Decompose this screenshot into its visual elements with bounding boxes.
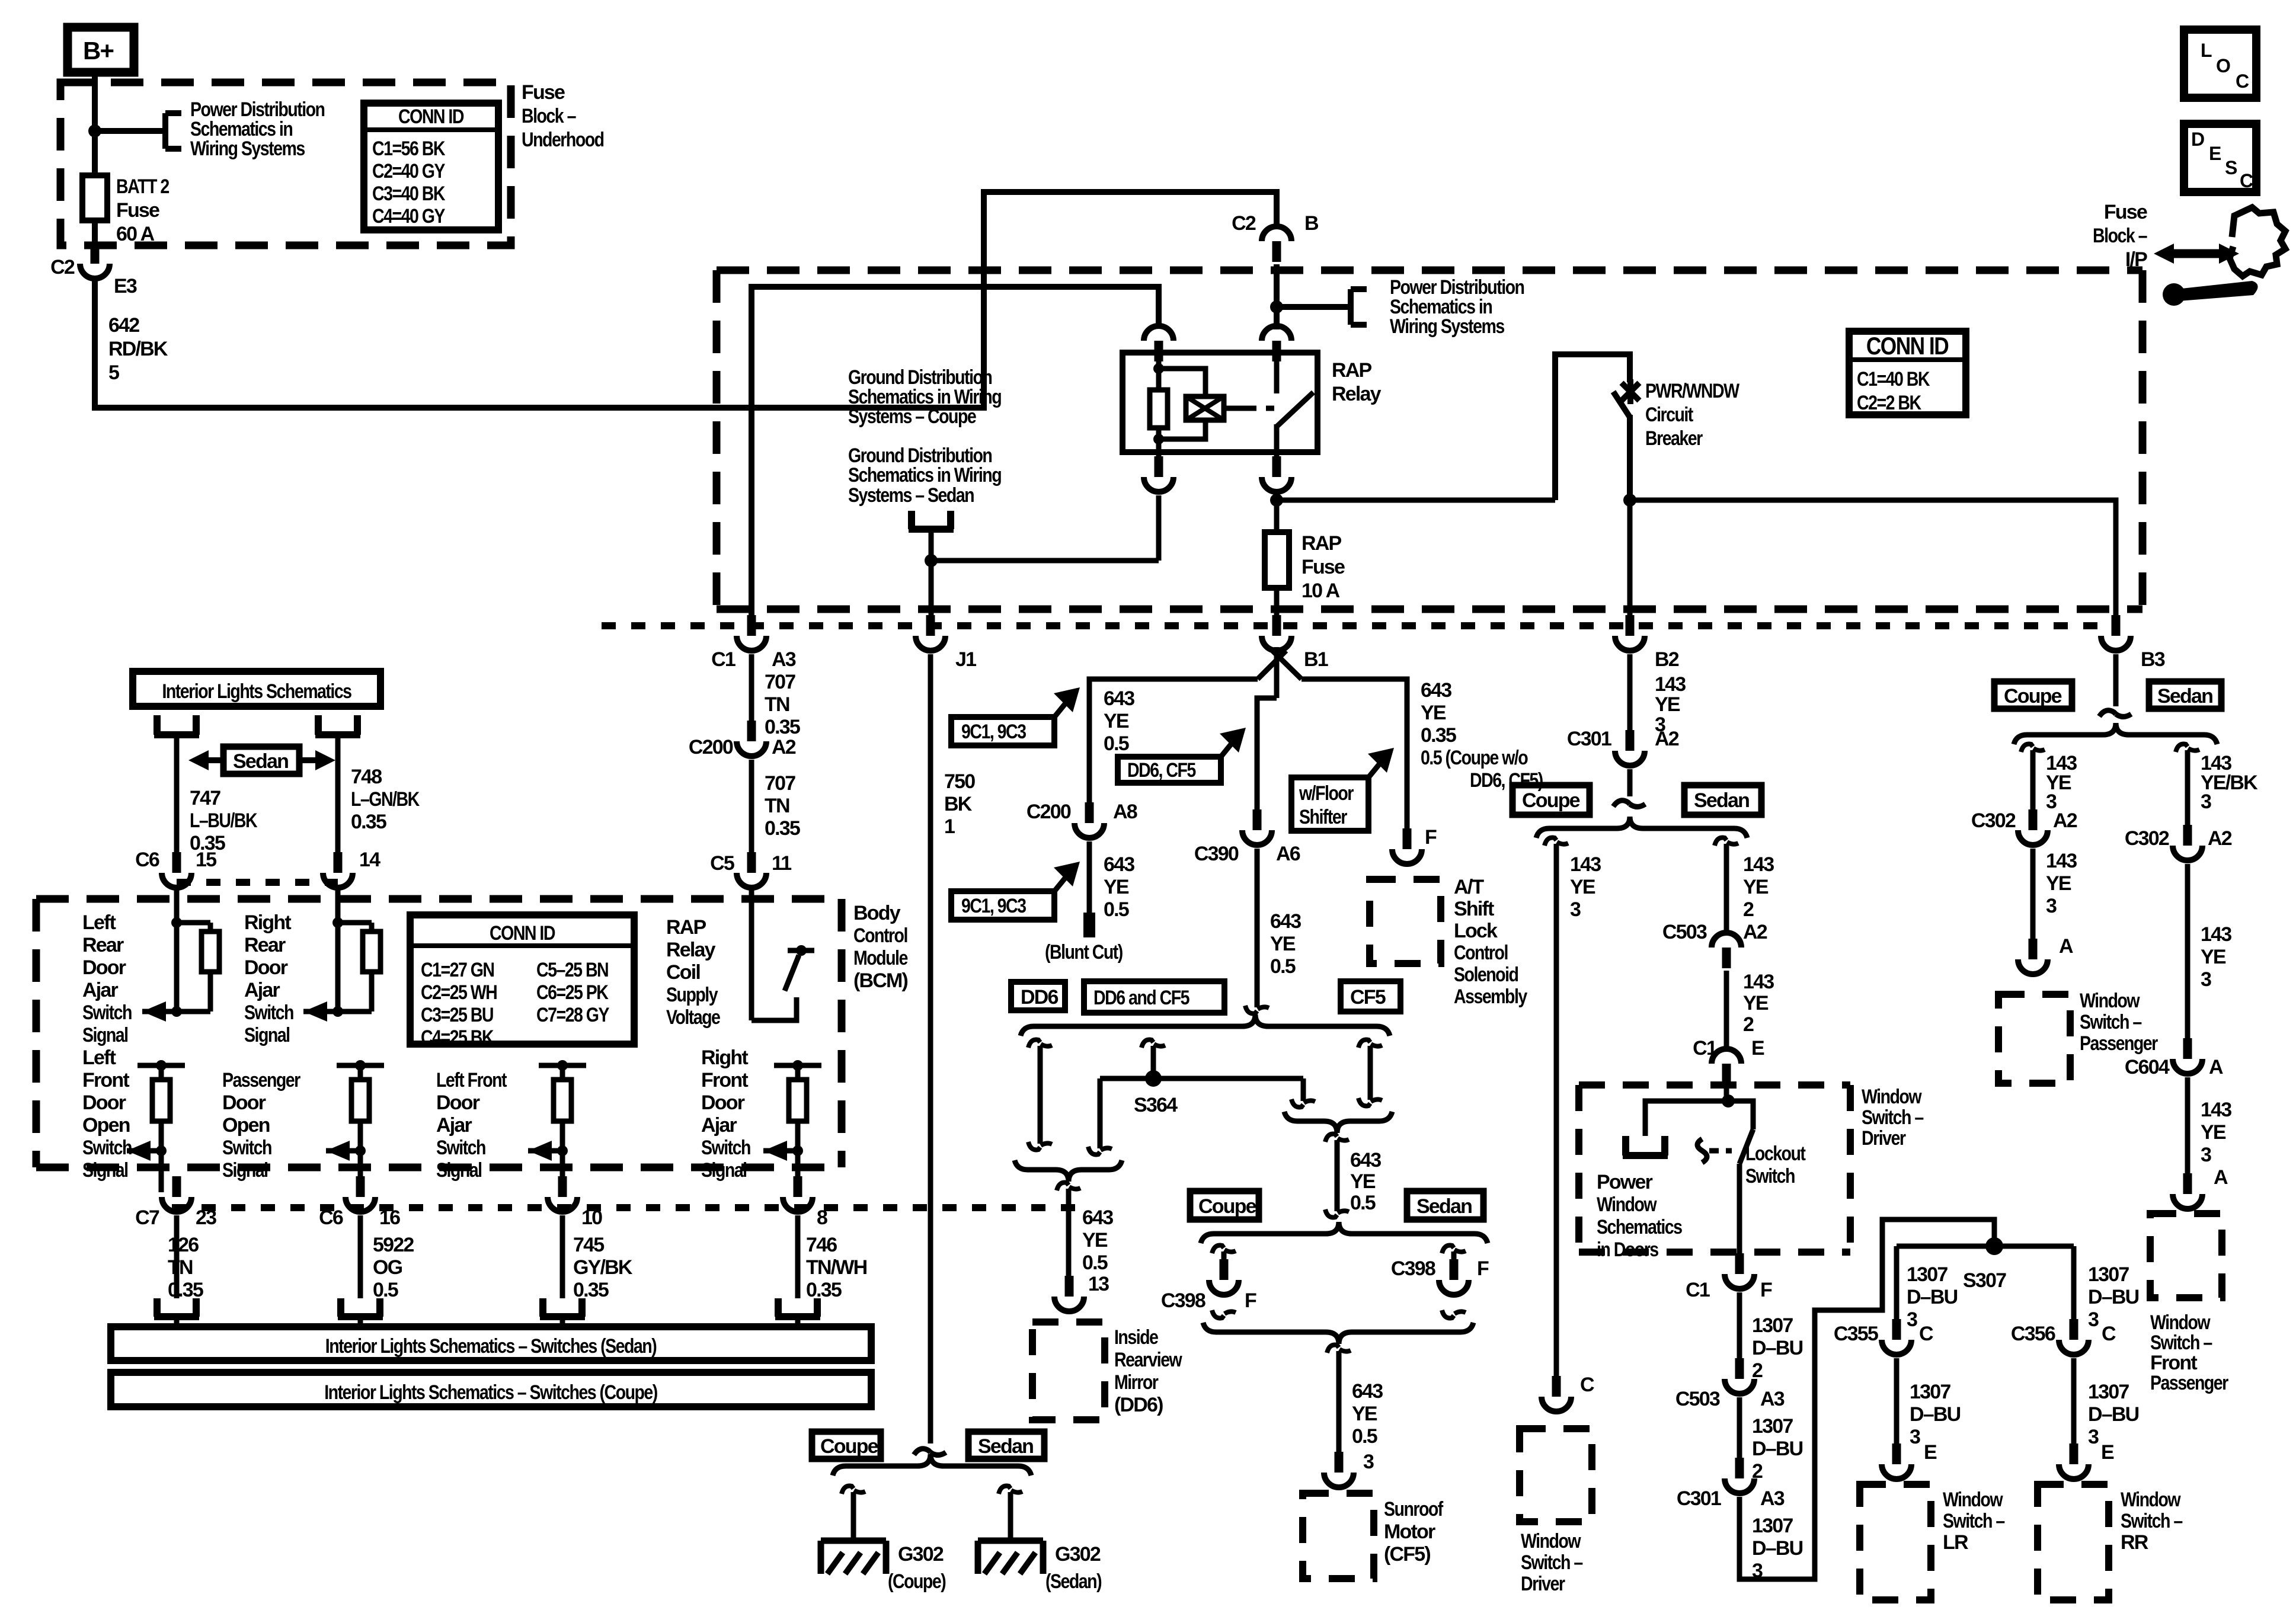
svg-text:Left Front: Left Front: [436, 1069, 507, 1092]
label B1: [1304, 648, 1328, 671]
svg-text:Control: Control: [1454, 942, 1508, 964]
svg-text:A8: A8: [1113, 801, 1137, 823]
label wire 643 YE 0.35 coupe note: [1421, 679, 1543, 792]
svg-text:Sedan: Sedan: [2157, 685, 2212, 708]
node relay coil top: [1153, 363, 1164, 374]
label wire 1307 D-BU 3 left of S307: [1907, 1263, 1958, 1331]
svg-text:Left: Left: [82, 1046, 116, 1069]
label S307: [1963, 1269, 2006, 1292]
svg-text:A3: A3: [1760, 1388, 1785, 1410]
label Left Front Door Open Switch Signal: [82, 1046, 132, 1182]
label C2: [50, 256, 75, 279]
label F at driver out: [1760, 1279, 1772, 1301]
wire sunroof motor: [1336, 1351, 1342, 1468]
label Ground Distribution Schematics in Wiring Systems Coupe: [848, 366, 1002, 428]
connector pin 14: [323, 852, 353, 888]
reference bracket power window doors: [1623, 1136, 1668, 1156]
connector passenger pin A: [2018, 939, 2048, 974]
label C302 coupe: [1971, 809, 2016, 832]
svg-text:C356: C356: [2011, 1323, 2055, 1345]
svg-text:Interior Lights Schematics – S: Interior Lights Schematics – Switches (S…: [325, 1335, 657, 1358]
svg-text:15: 15: [196, 849, 216, 871]
svg-text:Door: Door: [82, 1092, 126, 1114]
svg-text:Door: Door: [82, 956, 126, 979]
wire to power distribution ref 2: [1277, 304, 1351, 310]
label C356: [2011, 1323, 2055, 1345]
svg-text:TN: TN: [765, 693, 789, 716]
label B3: [2141, 648, 2165, 671]
right rear switch resistor branch: [332, 917, 380, 1012]
svg-text:0.35: 0.35: [351, 811, 386, 833]
label C301 at B2: [1567, 728, 1611, 750]
svg-text:Relay: Relay: [1332, 383, 1382, 405]
node right rear signal: [332, 1006, 343, 1017]
label C6 row2: [319, 1206, 343, 1229]
label wire 1307 D-BU 3 at LR: [1910, 1381, 1961, 1448]
label wire 143 YE 3 below C302 sedan: [2201, 923, 2231, 991]
label wire 1307 D-BU 3 below C301: [1752, 1515, 1803, 1582]
reference box DD6 CF5: [1118, 728, 1246, 783]
svg-text:C2=25 WH: C2=25 WH: [421, 981, 497, 1004]
wire S307 to C355: [1894, 1246, 1900, 1334]
svg-text:A2: A2: [772, 736, 796, 758]
svg-text:Voltage: Voltage: [666, 1006, 720, 1029]
reference box 9C1 9C3 upper: [951, 687, 1080, 745]
hook B2 sedan branch: [1715, 838, 1738, 846]
node lockout feed: [1722, 1094, 1735, 1108]
svg-text:Right: Right: [701, 1046, 748, 1069]
label A3 at C503: [1760, 1388, 1785, 1410]
label wire 643 YE 0.5 at A8: [1104, 687, 1134, 755]
interior lights switches sedan box: [111, 1327, 871, 1361]
right front door ajar switch: [763, 1060, 821, 1192]
hook B2 coupe branch: [1544, 838, 1568, 846]
label wire 707 TN 0.35 lower: [765, 772, 800, 840]
wire B1 right branch to F: [1302, 679, 1407, 844]
svg-text:Front: Front: [701, 1069, 748, 1092]
wire to inside rearview mirror: [1066, 1189, 1072, 1289]
brace split B2: [1536, 817, 1747, 838]
label 10: [581, 1206, 602, 1229]
label wire 746 TN/WH 0.35: [806, 1234, 867, 1301]
node junction below C2B: [1270, 300, 1283, 313]
svg-text:Window: Window: [1521, 1530, 1581, 1553]
label S364: [1134, 1094, 1178, 1116]
svg-text:YE: YE: [1570, 876, 1595, 898]
svg-text:Left: Left: [82, 911, 116, 934]
wire C301 to split: [1627, 769, 1633, 796]
svg-text:9C1, 9C3: 9C1, 9C3: [961, 721, 1027, 743]
svg-text:C: C: [1919, 1323, 1933, 1345]
svg-text:Sedan: Sedan: [1416, 1195, 1472, 1218]
label Left Front Door Ajar Switch Signal: [436, 1069, 507, 1182]
svg-text:10 A: 10 A: [1302, 580, 1340, 602]
window switch RR dashed box: [2038, 1484, 2109, 1600]
BCM RAP switch: [752, 885, 814, 1020]
svg-text:3: 3: [1910, 1426, 1920, 1448]
wire G302 coupe: [851, 1492, 856, 1541]
connector C window switch driver: [1542, 1376, 1571, 1411]
svg-text:C398: C398: [1161, 1289, 1205, 1312]
svg-text:1307: 1307: [1752, 1314, 1793, 1337]
svg-text:Front: Front: [82, 1069, 129, 1092]
svg-text:RD/BK: RD/BK: [108, 338, 168, 360]
option box Coupe B2: [1512, 785, 1590, 815]
hook C390 wire end: [1245, 1006, 1269, 1013]
svg-text:746: 746: [806, 1234, 837, 1256]
svg-text:Signal: Signal: [436, 1159, 482, 1182]
svg-text:Module: Module: [853, 947, 908, 969]
svg-text:C200: C200: [689, 736, 733, 758]
svg-text:143: 143: [1655, 673, 1686, 696]
brace split B3: [2014, 723, 2217, 744]
connector C390 pin A6: [1242, 809, 1272, 845]
label 14: [359, 849, 380, 871]
wire C604 to front passenger switch: [2185, 1077, 2191, 1189]
relay switch blade: [1277, 392, 1313, 427]
label C5: [710, 852, 734, 875]
label A3: [772, 648, 796, 671]
svg-text:C: C: [2240, 170, 2253, 191]
connector C301 pin A2: [1615, 730, 1645, 766]
label A3 at C301: [1760, 1487, 1785, 1510]
svg-text:Switch –: Switch –: [1943, 1510, 2005, 1532]
svg-text:643: 643: [1104, 687, 1134, 710]
svg-text:60 A: 60 A: [116, 223, 155, 245]
connector C5 pin 11: [737, 852, 766, 888]
fuse RAP 10A: [1265, 532, 1289, 588]
svg-text:YE: YE: [2046, 872, 2071, 895]
wire relay output to breaker leg: [1277, 498, 1555, 503]
svg-text:D: D: [2191, 129, 2204, 150]
label Left Rear Door Ajar Switch Signal: [82, 911, 132, 1046]
svg-text:S364: S364: [1134, 1094, 1178, 1116]
svg-text:143: 143: [1743, 853, 1774, 876]
left front door ajar switch: [528, 1060, 586, 1192]
label Window Switch Driver upper: [1862, 1086, 1924, 1150]
label wire 143 YE 3 below C302 coupe: [2046, 850, 2077, 917]
connector C503 pin A3: [1725, 1358, 1754, 1394]
svg-text:C6: C6: [135, 849, 159, 871]
svg-text:C503: C503: [1662, 921, 1707, 943]
label wire 143 YE 3 below C604: [2201, 1099, 2231, 1166]
wire RAP fuse feed: [1274, 500, 1280, 532]
label wire 643 YE 0.5 below A8: [1104, 853, 1134, 921]
svg-text:Interior Lights Schematics: Interior Lights Schematics: [162, 680, 351, 703]
svg-text:C1=40 BK: C1=40 BK: [1857, 368, 1930, 391]
svg-text:Sedan: Sedan: [233, 750, 288, 773]
svg-text:1307: 1307: [1907, 1263, 1948, 1286]
connector C1 pin A3: [737, 615, 766, 651]
label wire 143 YE 3 coupe branch: [1570, 853, 1601, 921]
svg-text:RAP: RAP: [1302, 532, 1342, 555]
hook coupe C398 top: [1212, 1246, 1236, 1253]
svg-text:E: E: [2209, 143, 2221, 164]
svg-text:C1=56 BK: C1=56 BK: [372, 137, 446, 160]
wire S364 left leg: [1098, 1078, 1103, 1148]
svg-text:C1=27 GN: C1=27 GN: [421, 959, 494, 981]
svg-text:Rear: Rear: [82, 934, 124, 956]
svg-text:C6: C6: [319, 1206, 343, 1229]
svg-text:YE: YE: [1270, 933, 1296, 955]
wire 143 YE coupe to driver switch: [1554, 844, 1559, 1391]
connector relay pin top right: [1262, 326, 1291, 361]
window switch driver dashed box: [1520, 1429, 1592, 1522]
label 16: [379, 1206, 400, 1229]
reference bracket C6 to switches: [338, 1298, 383, 1327]
svg-text:C7=28 GY: C7=28 GY: [536, 1004, 610, 1026]
reference bracket interior lights left: [154, 715, 199, 735]
connector sunroof pin 3: [1324, 1452, 1354, 1487]
connector pin 8: [783, 1176, 813, 1212]
svg-text:A: A: [2059, 935, 2073, 958]
svg-text:RR: RR: [2121, 1531, 2148, 1554]
svg-text:C302: C302: [1971, 809, 2016, 832]
svg-text:Passenger: Passenger: [2150, 1372, 2228, 1394]
label 11: [772, 852, 791, 875]
svg-text:C301: C301: [1677, 1487, 1721, 1510]
hook S364 left leg end: [1088, 1147, 1112, 1154]
svg-text:Sunroof: Sunroof: [1384, 1498, 1444, 1521]
wire C390 down to DD6 brace: [1255, 849, 1260, 1007]
label wire 143 YE 3 B3 coupe: [2046, 752, 2077, 813]
label C390: [1194, 843, 1239, 865]
wire lockout switch output: [1737, 1164, 1742, 1268]
option box Coupe G302: [812, 1432, 881, 1459]
svg-text:C1: C1: [711, 648, 736, 671]
wire B3 coupe to C302: [2030, 750, 2036, 825]
svg-text:A3: A3: [1760, 1487, 1785, 1510]
brace split G302: [833, 1454, 1031, 1475]
label wire 143 YE 3 at B2: [1655, 673, 1686, 736]
svg-text:Interior Lights Schematics – S: Interior Lights Schematics – Switches (C…: [324, 1381, 657, 1404]
reference box DD6: [1011, 982, 1065, 1010]
split G302 coupe sedan: [914, 1449, 946, 1455]
hook sunroof feed top: [1325, 1134, 1349, 1142]
svg-text:Window: Window: [1597, 1193, 1657, 1216]
node relay coil bottom: [1153, 434, 1164, 444]
label 23: [196, 1206, 216, 1229]
svg-text:TN: TN: [168, 1256, 193, 1279]
lockout flag symbol: [1697, 1139, 1732, 1163]
power symbol B+ box: [68, 27, 134, 72]
svg-text:643: 643: [1352, 1380, 1383, 1403]
svg-text:Coil: Coil: [666, 961, 700, 984]
node ground ref junction: [925, 554, 938, 567]
svg-text:Open: Open: [222, 1114, 270, 1137]
svg-text:Schematics in Wiring: Schematics in Wiring: [848, 464, 1002, 486]
svg-text:Switch –: Switch –: [1862, 1106, 1924, 1129]
svg-text:0.5: 0.5: [1082, 1251, 1108, 1274]
svg-text:A3: A3: [772, 648, 796, 671]
wire RAP fuse to B1: [1274, 588, 1280, 632]
wire BATT2 fuse to C2: [92, 220, 98, 256]
label C503 upper: [1662, 921, 1707, 943]
svg-text:Sedan: Sedan: [978, 1435, 1033, 1458]
svg-text:13: 13: [1088, 1273, 1109, 1295]
svg-text:C5: C5: [710, 852, 734, 875]
arrow right rear signal: [303, 1001, 338, 1022]
label A2 at C301: [1655, 728, 1679, 750]
svg-text:1307: 1307: [2088, 1263, 2129, 1286]
conn id table BCM: [410, 915, 634, 1049]
hook CF5 wire bottom: [1358, 1098, 1382, 1106]
hook coupe C398 bottom: [1212, 1310, 1236, 1318]
wire C355 to LR switch: [1894, 1358, 1900, 1459]
svg-text:143: 143: [1570, 853, 1601, 876]
connector C356 pin C: [2059, 1319, 2089, 1355]
svg-text:Signal: Signal: [82, 1024, 128, 1046]
svg-text:C390: C390: [1194, 843, 1239, 865]
svg-text:Lockout: Lockout: [1745, 1142, 1806, 1165]
svg-text:Open: Open: [82, 1114, 130, 1137]
hook sunroof feed bottom: [1325, 1209, 1349, 1217]
svg-text:14: 14: [359, 849, 380, 871]
label C1 at lockout box: [1693, 1037, 1717, 1060]
wire C1F to C503: [1737, 1292, 1742, 1374]
label A2 coupe: [2053, 809, 2077, 832]
label C301 lower: [1677, 1487, 1721, 1510]
svg-text:YE: YE: [1421, 702, 1446, 724]
svg-text:0.5 (Coupe w/o: 0.5 (Coupe w/o: [1421, 747, 1528, 769]
svg-text:Window: Window: [2150, 1311, 2211, 1334]
svg-text:750: 750: [944, 770, 975, 793]
connector C604 pin A: [2173, 1038, 2202, 1074]
wire DD6 option: [1038, 1046, 1043, 1144]
wire relay coil from top: [1156, 347, 1162, 390]
connector C355 pin C: [1882, 1319, 1911, 1355]
svg-text:TN/WH: TN/WH: [806, 1256, 867, 1279]
svg-text:3: 3: [2201, 790, 2211, 813]
relay coil actuator stub: [1224, 406, 1243, 411]
label 8: [817, 1206, 827, 1229]
label E at RR: [2101, 1441, 2114, 1464]
wire relay switch to bottom pin: [1274, 424, 1280, 473]
svg-text:YE: YE: [2201, 1121, 2226, 1144]
hook DD6 wire bottom: [1028, 1142, 1052, 1150]
svg-text:Driver: Driver: [1862, 1127, 1906, 1150]
label A at passenger switch: [2059, 935, 2073, 958]
svg-text:Switch: Switch: [1745, 1165, 1795, 1188]
label G302 coupe: [888, 1543, 945, 1593]
svg-text:0.35: 0.35: [765, 817, 800, 840]
svg-text:Systems – Coupe: Systems – Coupe: [848, 405, 976, 428]
hook DD6andCF5 wire top: [1141, 1040, 1165, 1048]
svg-text:Passenger: Passenger: [222, 1069, 300, 1092]
svg-text:A: A: [2214, 1166, 2228, 1189]
svg-text:Ajar: Ajar: [701, 1114, 737, 1137]
dotted connector row 2: [172, 1204, 1085, 1211]
wire sedan C398: [1451, 1251, 1457, 1274]
connector C6 pin 16: [346, 1176, 375, 1212]
svg-text:Window: Window: [1862, 1086, 1922, 1108]
circuit breaker symbol PWR/WNDW: [1613, 379, 1639, 417]
fuse BATT 2 60A: [82, 175, 107, 220]
svg-text:PWR/WNDW: PWR/WNDW: [1645, 380, 1739, 402]
brace options DD6 CF5: [1021, 1014, 1390, 1036]
reference bracket ground distribution: [909, 511, 954, 529]
svg-text:0.35: 0.35: [765, 716, 800, 738]
svg-text:A6: A6: [1276, 843, 1300, 865]
connector C1 pin F: [1725, 1253, 1754, 1289]
svg-text:2: 2: [1752, 1359, 1763, 1382]
label wire 143 YE/BK 3: [2201, 752, 2258, 813]
label A8: [1113, 801, 1137, 823]
svg-text:Sedan: Sedan: [1694, 789, 1749, 812]
connector C301 pin A3: [1725, 1458, 1754, 1493]
option box Sedan B3: [2149, 681, 2221, 709]
svg-text:C: C: [1580, 1374, 1594, 1396]
svg-text:G302: G302: [1055, 1543, 1101, 1566]
label wire 747 L-BU/BK 0.35: [190, 787, 258, 854]
window switch driver lockout dashed box: [1579, 1085, 1850, 1252]
connector C503 pin A2: [1712, 933, 1741, 968]
svg-text:1307: 1307: [2088, 1381, 2129, 1403]
svg-text:C4=25 BK: C4=25 BK: [421, 1026, 494, 1049]
connector RR pin E: [2059, 1443, 2089, 1479]
svg-text:Window: Window: [1943, 1489, 2003, 1511]
svg-text:Switch: Switch: [82, 1001, 132, 1024]
label wire 643 YE 0.5 sunroof feed: [1350, 1149, 1381, 1214]
label pin 3 sunroof: [1363, 1451, 1374, 1473]
relay RAP outline: [1123, 353, 1318, 452]
svg-text:DD6 and CF5: DD6 and CF5: [1093, 987, 1189, 1009]
splice S364: [1145, 1070, 1162, 1087]
node junction on B+ feed: [88, 124, 101, 137]
svg-text:CONN ID: CONN ID: [1866, 332, 1949, 360]
reference bracket power distribution: [165, 113, 181, 149]
svg-text:Systems – Sedan: Systems – Sedan: [848, 484, 974, 507]
svg-text:Front: Front: [2150, 1352, 2197, 1374]
svg-text:C200: C200: [1027, 801, 1071, 823]
conn id table I/P: [1849, 331, 1966, 415]
window switch passenger dashed box: [1998, 994, 2070, 1083]
svg-text:C2=2 BK: C2=2 BK: [1857, 392, 1921, 414]
label C2 at B: [1232, 212, 1256, 235]
wire S307 horizontal: [1897, 1244, 2074, 1249]
svg-text:B+: B+: [83, 37, 114, 65]
label C200: [689, 736, 733, 758]
svg-text:Door: Door: [222, 1092, 266, 1114]
connector C398 F coupe: [1209, 1259, 1239, 1295]
svg-text:DD6, CF5: DD6, CF5: [1127, 759, 1196, 782]
label Body Control Module BCM: [853, 902, 908, 992]
wire sunroof feed: [1335, 1140, 1340, 1211]
svg-text:A2: A2: [1655, 728, 1679, 750]
inside rearview mirror dashed box: [1032, 1322, 1105, 1420]
wire right rear switch: [335, 885, 341, 1012]
connector B3: [2101, 615, 2131, 651]
svg-text:B1: B1: [1304, 648, 1328, 671]
svg-text:YE: YE: [1082, 1229, 1108, 1251]
svg-text:747: 747: [190, 787, 220, 809]
hook CF5 wire top: [1358, 1040, 1382, 1048]
svg-text:A2: A2: [2208, 827, 2232, 850]
label wire 643 YE 0.5 sunroof motor: [1352, 1380, 1383, 1448]
svg-text:w/Floor: w/Floor: [1299, 782, 1354, 805]
svg-text:Signal: Signal: [222, 1159, 268, 1182]
svg-text:10: 10: [581, 1206, 602, 1229]
label Window Switch RR: [2121, 1489, 2183, 1554]
relay coil box with X: [1186, 396, 1224, 420]
svg-text:Block –: Block –: [522, 105, 576, 127]
svg-text:B: B: [1304, 212, 1319, 235]
svg-text:126: 126: [168, 1234, 199, 1256]
dotted connector row line: [602, 622, 2103, 629]
label wire 750 BK 1: [944, 770, 975, 838]
svg-text:0.5: 0.5: [1104, 732, 1129, 755]
svg-text:OG: OG: [373, 1256, 402, 1279]
